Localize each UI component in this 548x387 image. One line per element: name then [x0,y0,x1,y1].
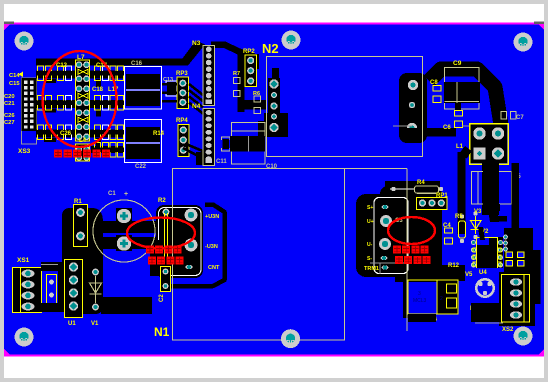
svg-text:R7: R7 [233,71,240,77]
thick trace loop C9 [429,69,501,125]
IC U2 [471,237,503,268]
svg-text:MCL3: MCL3 [413,298,427,304]
svg-text:C11: C11 [216,159,227,165]
module N2 outline [267,57,423,157]
svg-text:C7: C7 [516,115,524,121]
gray ratsnest left [41,264,58,266]
svg-text:S+: S+ [367,205,373,211]
resistor R4 [385,181,443,193]
MOSFET module V6 [403,276,458,318]
diode V1 [90,268,102,312]
trace from blob pad to right [403,128,456,137]
svg-text:C16: C16 [131,61,143,67]
IC U4 [473,245,501,268]
trace vertical to R7 [238,53,245,112]
svg-text:RP3: RP3 [176,71,188,77]
extra row4 right caps [91,143,124,158]
svg-text:R5: R5 [455,214,463,220]
pads on blob [408,80,418,90]
svg-text:R4: R4 [417,180,425,186]
board outline keepout bottom [4,355,544,357]
annotation ellipse interface filter [43,51,117,147]
ratsnest gray [393,125,412,127]
trace ring around U3N block [165,205,225,287]
connector XS3 [22,78,37,144]
svg-text:N2: N2 [262,41,279,56]
svg-text:U4: U4 [479,270,487,276]
capacitor C22 [125,120,162,163]
svg-text:+: + [124,191,128,198]
inductor L4 [76,144,90,161]
mounting hole bottom-left [15,328,34,347]
trace blob left of C9 [399,73,427,143]
mounting hole top-middle [282,31,301,50]
svg-text:S-: S- [367,256,372,262]
svg-text:L7: L7 [77,54,85,61]
svg-text:C6: C6 [443,125,451,131]
resistor network RP4 [178,125,189,157]
connector U1 [65,260,83,318]
right block +U3N [156,205,203,278]
SMD pads R8 R10 [506,252,513,258]
capacitor C10 [230,123,265,165]
svg-text:TRM1: TRM1 [364,266,379,272]
svg-text:RP1: RP1 [436,193,448,199]
TRM1 pads [382,205,389,209]
svg-text:V3: V3 [474,209,482,215]
module N1 outline [173,169,345,341]
C1 pads [117,209,131,223]
via R2 [163,209,170,216]
svg-text:U-: U- [367,242,373,248]
svg-text:U+: U+ [367,219,374,225]
component U3 [47,275,57,304]
resistor network RP3 [177,77,189,109]
capacitor C6 [455,111,463,128]
capacitor row 3 [36,125,124,146]
trace vertical khaki [406,169,408,332]
big black blob TRM area [356,194,442,277]
inductor L1 [470,124,509,165]
svg-text:R2: R2 [158,198,166,204]
svg-text:XS1: XS1 [17,257,30,264]
svg-text:CNT: CNT [208,265,220,271]
annotation text output line2 [395,256,431,264]
svg-text:C12: C12 [56,63,68,69]
capacitor C1 circle [93,200,155,262]
svg-text:C20: C20 [4,94,15,100]
svg-text:R12: R12 [448,263,460,269]
svg-text:C8: C8 [430,80,438,86]
svg-text:N4: N4 [192,103,201,110]
svg-text:N1: N1 [154,325,170,339]
small teal pads column [503,235,508,240]
resistor R9 [479,305,494,310]
stubs C16 to RP3 [162,83,177,86]
svg-text:C18: C18 [92,87,104,93]
capacitor C8 [433,86,441,103]
svg-text:U1: U1 [68,321,76,327]
mounting hole bottom-middle [281,329,300,348]
connector pads N2-left [268,78,280,134]
resistor R5 [459,214,466,243]
inductor L7 [76,60,90,141]
capacitor C5 [472,171,512,204]
annotation text output line1 [393,246,429,254]
svg-text:C4: C4 [443,223,451,229]
trace below L1 [458,146,472,159]
black region right of U2 [512,163,520,276]
traces RP4 down [186,144,205,152]
svg-text:R6: R6 [253,91,260,97]
svg-text:-U3N: -U3N [205,244,218,250]
svg-text:2: 2 [440,296,443,302]
svg-text:V1: V1 [91,321,99,327]
resistor network RP2 [245,55,257,87]
mounting hole bottom-right [514,327,533,346]
annotation text input line2 [148,257,184,265]
svg-text:C26: C26 [4,113,15,119]
svg-text:RP4: RP4 [176,118,188,124]
svg-text:C27: C27 [4,120,15,126]
svg-text:L4: L4 [79,138,87,144]
yellow traces near R2 [164,213,166,262]
svg-text:3: 3 [418,291,421,297]
connector N4 [203,109,215,166]
capacitor C2 [161,267,171,292]
trace N3 to RP2 stepped [211,45,254,57]
traces RP3 to N4 [189,84,203,114]
corner chamfers [4,23,11,30]
resistor R7 [234,78,241,97]
mounting hole top-right [514,33,533,52]
svg-text:V5: V5 [465,272,473,278]
trace horizontal khaki [345,168,407,170]
resistor R1 [74,205,88,247]
annotation text interface filter [54,150,110,158]
capacitor C11 [222,137,231,151]
diode V2 [487,211,495,219]
svg-text:C9: C9 [453,60,462,67]
capacitor C13 [166,81,177,96]
trace bundle top-left [36,59,182,66]
svg-text:C26: C26 [60,131,72,137]
connector XS1 [13,268,42,313]
connector N3 [203,46,215,106]
svg-text:R1: R1 [74,199,82,205]
svg-text:C2: C2 [159,294,165,302]
black blob bridge area [62,208,103,314]
svg-text:C15: C15 [9,81,20,87]
svg-text:C10: C10 [266,164,278,170]
board outline keepout top [4,23,544,25]
svg-text:L1: L1 [456,144,464,150]
mounting hole top-left [15,32,34,51]
svg-text:C1: C1 [108,191,116,197]
svg-text:RP2: RP2 [243,49,255,55]
svg-text:XS3: XS3 [18,148,31,155]
svg-text:R14: R14 [153,131,165,137]
svg-text:C22: C22 [135,164,147,170]
annotation ellipse output [388,217,435,244]
svg-text:C21: C21 [4,101,15,107]
capacitor C16 [125,67,162,110]
resistor R6 [254,96,261,114]
transformer TRM1 outline [374,198,408,274]
svg-text:+U3N: +U3N [205,214,219,220]
pads U3N [185,209,198,222]
trace diag to N3 [177,41,205,66]
capacitor row 2 [36,96,124,117]
capacitor C9 [444,68,480,110]
resistor network RP1 [417,198,448,210]
capacitor C4 [445,228,453,244]
annotation ellipse input [127,218,195,249]
capacitor C7 [501,112,516,120]
svg-text:C14: C14 [9,73,20,79]
transistor V5 [475,278,495,298]
capacitor row 1 [36,66,124,87]
annotation text input line1 [146,246,182,254]
ratsnest gray lines right [370,262,408,264]
svg-text:XS2: XS2 [502,327,514,333]
connector XS2 [499,272,535,326]
svg-text:N3: N3 [192,40,201,47]
diode V3 [471,211,482,239]
svg-text:C13: C13 [163,77,173,83]
black between U3 and U1 [41,262,64,271]
